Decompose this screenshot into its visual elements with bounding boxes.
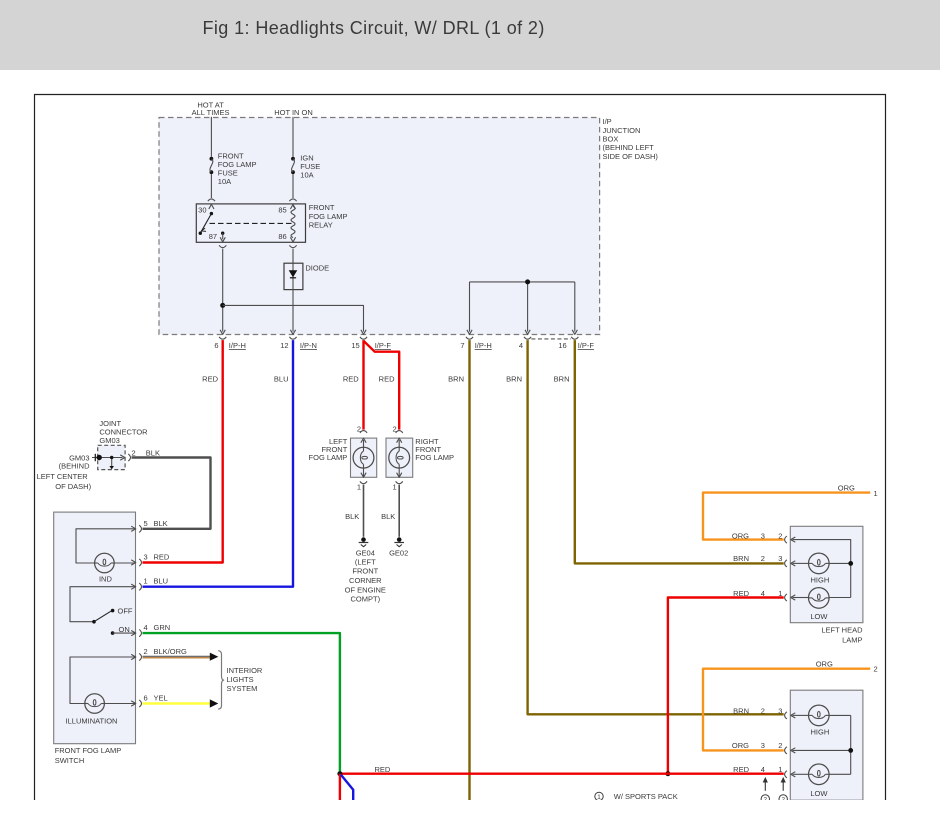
- wire BLK right fog lamp to ground: [398, 485, 400, 537]
- svg-text:LOW: LOW: [810, 612, 828, 621]
- svg-text:ORG: ORG: [838, 484, 855, 493]
- left head lamp pin 3: [785, 560, 787, 567]
- wire fuse to relay pin 30: [210, 174, 212, 198]
- switch pin 4: [131, 631, 136, 636]
- svg-text:Fig 1: Headlights Circuit, W/: Fig 1: Headlights Circuit, W/ DRL (1 of …: [203, 18, 545, 38]
- left head lamp box: [790, 526, 863, 622]
- svg-text:2: 2: [132, 449, 136, 458]
- svg-text:2: 2: [761, 706, 765, 715]
- note 1 W/ SPORTS PACK: [595, 792, 603, 800]
- svg-text:6: 6: [144, 694, 148, 703]
- wire RED bus to right head lamp pin 1: [340, 773, 784, 775]
- wire ORG page connector 1 to left head lamp pin 2: [703, 493, 870, 540]
- svg-text:I/P: I/P: [603, 117, 612, 126]
- svg-text:GRN: GRN: [154, 623, 171, 632]
- wire RED stub down: [339, 774, 341, 801]
- wire ORG page connector 2 to right head lamp pin 2: [703, 669, 870, 751]
- junction node green-red: [337, 771, 342, 776]
- svg-text:BRN: BRN: [733, 554, 749, 563]
- svg-text:(LEFT: (LEFT: [355, 557, 376, 566]
- wire RED branch to right fog lamp: [364, 341, 400, 430]
- wire RED connector 6 to switch pin 3: [143, 340, 223, 562]
- svg-text:6: 6: [214, 341, 218, 350]
- svg-text:SYSTEM: SYSTEM: [227, 684, 258, 693]
- svg-text:ON: ON: [119, 625, 130, 634]
- I/P junction box: [159, 118, 600, 335]
- svg-text:GE02: GE02: [389, 549, 408, 558]
- wire fuse to relay pin 85: [292, 174, 294, 198]
- svg-text:JUNCTION: JUNCTION: [603, 126, 641, 135]
- right head lamp box: [790, 690, 863, 800]
- left head lamp HIGH bulb: [809, 553, 830, 574]
- svg-text:FOG LAMP: FOG LAMP: [309, 453, 348, 462]
- left head lamp LOW bulb: [809, 588, 830, 609]
- svg-text:2: 2: [781, 797, 785, 804]
- wire BLK/ORG switch pin 2 to interior lights: [143, 655, 211, 657]
- svg-text:I/P-F: I/P-F: [375, 341, 392, 350]
- wire BLU connector 12 to switch pin 1: [143, 340, 294, 587]
- svg-text:HIGH: HIGH: [811, 728, 830, 737]
- left head lamp internals: [793, 540, 851, 598]
- svg-text:4: 4: [519, 341, 523, 350]
- svg-text:BRN: BRN: [506, 374, 522, 383]
- title bar: [0, 0, 940, 70]
- wire RED feed to head lamps low beams: [668, 598, 784, 774]
- svg-text:LIGHTS: LIGHTS: [227, 675, 254, 684]
- svg-text:RED: RED: [343, 374, 359, 383]
- svg-text:FRONT FOG LAMP: FRONT FOG LAMP: [55, 746, 122, 755]
- interior lights system brace: [218, 651, 224, 709]
- switch illumination lamp: [70, 657, 136, 704]
- svg-text:I/P-H: I/P-H: [229, 341, 246, 350]
- fuse FRONT FOG LAMP FUSE 10A: [210, 157, 214, 161]
- svg-text:87: 87: [209, 232, 217, 241]
- left head lamp pin 2: [785, 536, 787, 543]
- ground GE02: [397, 537, 402, 542]
- svg-text:RELAY: RELAY: [309, 221, 333, 230]
- svg-text:16: 16: [558, 341, 566, 350]
- svg-text:1: 1: [144, 577, 148, 586]
- svg-text:7: 7: [460, 341, 464, 350]
- svg-text:FOG LAMP: FOG LAMP: [309, 212, 348, 221]
- switch indicator lamp IND: [76, 529, 136, 563]
- svg-text:3: 3: [778, 706, 782, 715]
- svg-text:I/P-F: I/P-F: [578, 341, 595, 350]
- wire BRN connector 7 down: [468, 340, 470, 801]
- ground GE04: [361, 537, 366, 542]
- svg-text:2: 2: [357, 425, 361, 434]
- svg-text:GM03: GM03: [99, 436, 119, 445]
- wire relay 86 to diode: [292, 249, 294, 264]
- svg-text:(BEHIND: (BEHIND: [59, 462, 90, 471]
- svg-text:2: 2: [144, 647, 148, 656]
- svg-text:SIDE OF DASH): SIDE OF DASH): [603, 152, 659, 161]
- svg-text:BRN: BRN: [554, 374, 570, 383]
- svg-text:OFF: OFF: [118, 606, 133, 615]
- svg-text:BLK: BLK: [146, 449, 160, 458]
- svg-text:2: 2: [761, 554, 765, 563]
- svg-text:BLU: BLU: [154, 577, 169, 586]
- svg-text:RED: RED: [202, 374, 218, 383]
- svg-text:2: 2: [778, 531, 782, 540]
- right head lamp pin 2: [785, 747, 787, 754]
- svg-text:BLK: BLK: [154, 519, 168, 528]
- fuse IGN FUSE 10A: [291, 157, 295, 161]
- svg-text:3: 3: [761, 741, 765, 750]
- junction node on bus: [525, 279, 530, 284]
- left head lamp pin 1: [785, 594, 787, 601]
- svg-text:FRONT: FRONT: [309, 203, 335, 212]
- svg-text:ORG: ORG: [732, 741, 749, 750]
- right head lamp pin 1: [785, 771, 787, 778]
- svg-text:LEFT HEAD: LEFT HEAD: [821, 625, 863, 634]
- right head lamp pin 3: [785, 712, 787, 719]
- wire BRN connector 16 to left head lamp pin 3: [575, 340, 784, 563]
- svg-text:3: 3: [778, 554, 782, 563]
- diode symbol: [292, 263, 294, 289]
- left front fog lamp: [360, 431, 367, 433]
- svg-text:HOT IN ON: HOT IN ON: [274, 108, 313, 117]
- wire BLK left fog lamp to ground: [363, 485, 365, 537]
- right head lamp HIGH bulb: [809, 705, 830, 726]
- right head lamp internals: [793, 714, 809, 716]
- svg-text:BLK: BLK: [381, 512, 395, 521]
- wire diode to connector 12: [292, 290, 294, 332]
- right front fog lamp: [396, 431, 403, 433]
- note marker arrows under right head lamp pins: [764, 782, 766, 791]
- svg-text:3: 3: [761, 531, 765, 540]
- relay pin 30: [208, 199, 215, 201]
- svg-text:86: 86: [278, 232, 286, 241]
- svg-text:2: 2: [393, 425, 397, 434]
- svg-text:RED: RED: [379, 374, 395, 383]
- svg-text:2: 2: [874, 665, 878, 674]
- svg-text:10A: 10A: [218, 177, 231, 186]
- svg-text:LEFT CENTER: LEFT CENTER: [37, 472, 89, 481]
- svg-text:2: 2: [764, 797, 768, 804]
- switch contact OFF/ON: [70, 587, 136, 622]
- svg-text:10A: 10A: [300, 171, 313, 180]
- svg-text:1: 1: [597, 794, 601, 801]
- svg-text:ALL TIMES: ALL TIMES: [192, 108, 230, 117]
- svg-text:12: 12: [280, 341, 288, 350]
- GM03 internals: [92, 457, 123, 459]
- svg-text:2: 2: [778, 741, 782, 750]
- switch pin 6: [131, 701, 136, 706]
- svg-text:DIODE: DIODE: [305, 263, 329, 272]
- wire YEL switch pin 6 to interior lights: [143, 702, 211, 705]
- svg-text:W/ SPORTS PACK: W/ SPORTS PACK: [614, 792, 678, 801]
- svg-text:1: 1: [874, 489, 878, 498]
- relay coil: [289, 199, 296, 201]
- wire BLK GM03 to switch pin 5: [132, 458, 211, 529]
- svg-text:OF ENGINE: OF ENGINE: [345, 585, 386, 594]
- svg-text:BLU: BLU: [274, 374, 289, 383]
- diode box: [284, 263, 303, 289]
- svg-text:ORG: ORG: [732, 531, 749, 540]
- wire BRN connector 4 to right head lamp pin 3: [528, 340, 784, 714]
- svg-text:(BEHIND LEFT: (BEHIND LEFT: [603, 143, 655, 152]
- relay mechanical link: [210, 222, 293, 224]
- svg-text:I/P-N: I/P-N: [300, 341, 317, 350]
- svg-text:15: 15: [351, 341, 359, 350]
- svg-text:30: 30: [198, 206, 206, 215]
- junction node red feed: [665, 771, 670, 776]
- svg-text:ORG: ORG: [816, 659, 833, 668]
- svg-text:85: 85: [278, 206, 286, 215]
- svg-text:BRN: BRN: [448, 374, 464, 383]
- svg-text:RED: RED: [154, 553, 170, 562]
- switch pin 5: [131, 526, 136, 531]
- front fog lamp switch box: [54, 512, 136, 744]
- svg-text:1: 1: [357, 483, 361, 492]
- svg-text:5: 5: [144, 519, 148, 528]
- svg-text:FOG LAMP: FOG LAMP: [415, 453, 454, 462]
- relay switch blade: [200, 214, 211, 234]
- svg-text:CORNER: CORNER: [349, 576, 382, 585]
- connector link 4-16: [531, 338, 571, 340]
- wire BLU stub down: [341, 775, 353, 801]
- switch pin 3: [131, 560, 136, 565]
- switch pin 2: [131, 654, 136, 659]
- relay FRONT FOG LAMP RELAY box: [196, 204, 305, 242]
- svg-text:LOW: LOW: [810, 789, 828, 798]
- svg-text:IND: IND: [99, 574, 113, 583]
- svg-text:I/P-H: I/P-H: [475, 341, 492, 350]
- svg-text:3: 3: [144, 553, 148, 562]
- svg-text:BRN: BRN: [733, 706, 749, 715]
- svg-text:YEL: YEL: [154, 694, 168, 703]
- svg-text:ILLUMINATION: ILLUMINATION: [66, 717, 118, 726]
- svg-text:LAMP: LAMP: [842, 635, 862, 644]
- wire GRN switch pin 4 to junction: [143, 633, 340, 774]
- wire RED connector 15 to left fog lamp: [362, 340, 364, 430]
- svg-text:RED: RED: [375, 765, 391, 774]
- wire relay 87 to connector 6: [222, 249, 224, 332]
- wire battery feed: [210, 117, 212, 157]
- svg-text:INTERIOR: INTERIOR: [227, 666, 263, 675]
- svg-text:BOX: BOX: [603, 135, 619, 144]
- switch pin 1: [131, 584, 136, 589]
- wire internal bus to connectors 7 4 16: [470, 281, 575, 283]
- svg-text:BLK/ORG: BLK/ORG: [154, 647, 188, 656]
- right head lamp LOW bulb: [809, 764, 830, 785]
- joint connector GM03 box: [98, 445, 125, 469]
- junction node on 87 wire: [220, 303, 225, 308]
- svg-text:4: 4: [144, 623, 148, 632]
- svg-text:OF DASH): OF DASH): [55, 482, 91, 491]
- wire jumper to connector 15: [223, 305, 364, 331]
- svg-text:BLK: BLK: [345, 512, 359, 521]
- svg-text:SWITCH: SWITCH: [55, 756, 85, 765]
- wire ignition feed: [292, 117, 294, 157]
- svg-text:GE04: GE04: [356, 549, 375, 558]
- svg-text:1: 1: [393, 483, 397, 492]
- svg-text:FRONT: FRONT: [352, 567, 378, 576]
- diagram border: [35, 95, 886, 801]
- svg-text:COMPT): COMPT): [351, 595, 381, 604]
- svg-text:HIGH: HIGH: [811, 576, 830, 585]
